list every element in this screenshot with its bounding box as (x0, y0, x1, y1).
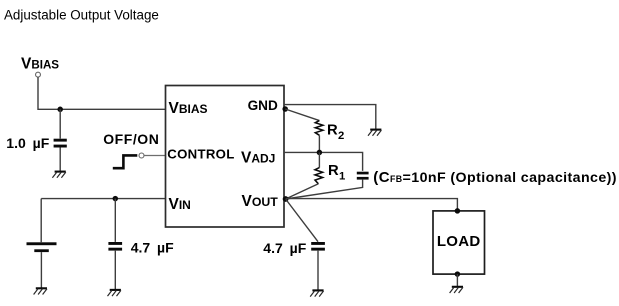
svg-text:VBIAS: VBIAS (169, 100, 208, 117)
svg-text:Adjustable Output Voltage: Adjustable Output Voltage (4, 8, 159, 23)
ground (below C3) (310, 290, 323, 296)
ground (below LOAD) (450, 287, 463, 293)
ground (below C2) (108, 290, 121, 296)
svg-text:R: R (327, 123, 338, 139)
svg-text:VIN: VIN (169, 196, 191, 213)
pin label VADJ (241, 150, 275, 167)
wire VIN rail down to battery (40, 199, 42, 243)
battery (VIN source) (27, 242, 57, 252)
pin label GND (248, 98, 278, 113)
wire battery to ground (40, 252, 42, 288)
wire LOAD bottom to ground (456, 274, 458, 286)
pin label VOUT (242, 193, 279, 210)
wire CFB bottom to VOUT dot (diagonal) (286, 180, 363, 199)
capacitor CFB (357, 172, 369, 180)
wire R2 bottom to VADJ rail (318, 135, 320, 152)
svg-text:OFF/ON: OFF/ON (103, 131, 159, 147)
load block (433, 211, 485, 274)
junction dot LOAD bottom (455, 271, 461, 277)
pin label VBIAS (169, 100, 208, 117)
wire GND dot to R2 top (diagonal) (285, 109, 319, 121)
IC U1 (regulator body) (166, 86, 285, 228)
svg-text:VBIAS: VBIAS (21, 56, 59, 73)
pin label VIN (169, 196, 191, 213)
wire VADJ rail (284, 152, 363, 171)
capacitor 4.7 uF (input) (108, 242, 122, 251)
wire VBIAS terminal to junction to IC VBIAS pin (38, 77, 166, 109)
junction dot (VIN / C2) (113, 196, 119, 202)
svg-text:R: R (328, 163, 339, 179)
capacitor 4.7 uF (output) (311, 242, 325, 251)
svg-text:VADJ: VADJ (241, 150, 275, 167)
node OFF/ON label (103, 131, 159, 147)
capacitor 1.0 uF (bias) (54, 139, 67, 148)
terminal CONTROL (open circle) (139, 153, 144, 158)
wire C3 to ground (317, 251, 319, 290)
node VBIAS label (21, 56, 59, 73)
svg-text:VOUT: VOUT (242, 193, 279, 210)
resistor R2 (315, 121, 323, 136)
junction dot LOAD top (455, 208, 461, 214)
wire VOUT to LOAD (286, 199, 458, 211)
svg-text:(CFB=10nF (Optional capacitanc: (CFB=10nF (Optional capacitance)) (373, 169, 617, 186)
wire junction to C2 (114, 199, 116, 242)
resistor R1 (315, 168, 323, 184)
junction dot VADJ / R1 (317, 150, 323, 156)
junction dot GND pin (282, 106, 288, 112)
svg-text:LOAD: LOAD (437, 233, 481, 250)
control step waveform symbol (113, 155, 138, 168)
ground (below C1) (52, 172, 65, 178)
wire C1 to ground (59, 148, 61, 172)
junction dot (VBIAS / C1) (57, 107, 63, 113)
label R2 (327, 123, 344, 142)
wire VADJ junction to R1 top (318, 152, 320, 167)
junction dot VOUT (283, 196, 289, 202)
wire C2 to ground (114, 251, 116, 290)
wire CONTROL terminal to IC (144, 155, 166, 157)
wire junction to C1 (59, 109, 61, 138)
ground (GND net) (368, 130, 381, 136)
label LOAD (437, 233, 481, 250)
wire VIN rail (41, 198, 165, 200)
ground (below battery) (34, 288, 47, 294)
svg-text:4.7 µF: 4.7 µF (131, 239, 174, 255)
wire GND pin to ground (284, 105, 376, 130)
note label (CFB=10nF (Optional capacitance)) (373, 169, 617, 186)
wire VOUT to C3 (diagonal) (286, 199, 318, 242)
wire R1 bottom to VOUT dot (diagonal) (286, 184, 319, 199)
svg-text:2: 2 (338, 130, 344, 142)
svg-text:GND: GND (248, 98, 278, 113)
svg-text:CONTROL: CONTROL (167, 147, 234, 162)
terminal VBIAS (open circle) (36, 72, 41, 77)
svg-text:4.7 µF: 4.7 µF (263, 240, 306, 256)
label R1 (328, 163, 345, 182)
svg-text:1: 1 (339, 170, 345, 182)
svg-text:1.0 µF: 1.0 µF (6, 135, 49, 151)
pin label CONTROL (167, 147, 234, 162)
